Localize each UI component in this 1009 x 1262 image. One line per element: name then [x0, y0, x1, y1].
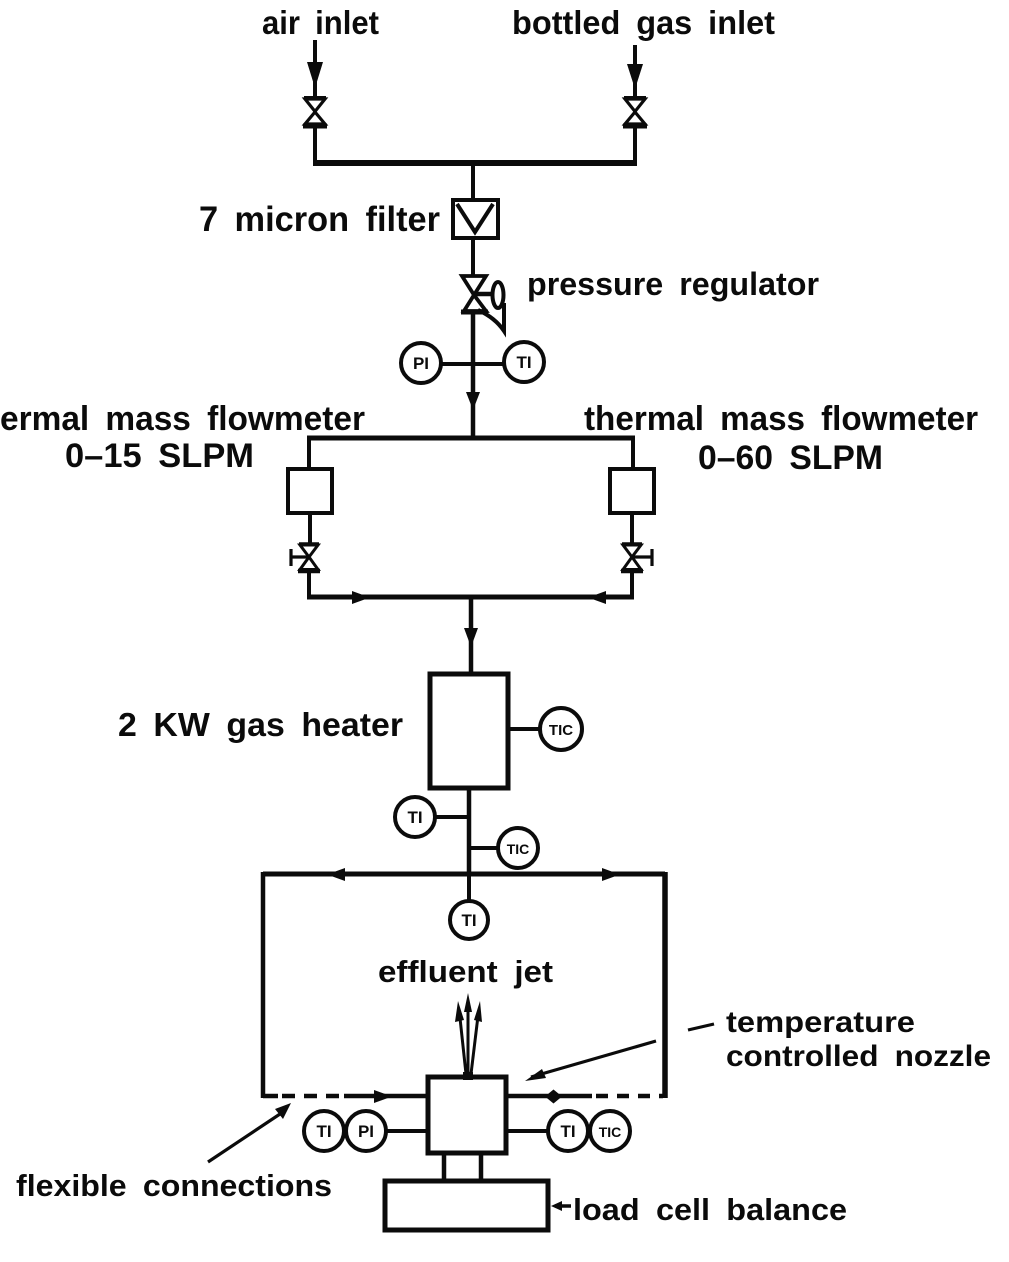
- svg-text:0–15 SLPM: 0–15 SLPM: [65, 437, 254, 475]
- svg-text:effluent jet: effluent jet: [378, 954, 553, 989]
- instrument TI4 (nozzle left): [304, 1111, 344, 1151]
- filter F1: [453, 200, 498, 238]
- wire: loop left side: [261, 872, 266, 1098]
- svg-text:TI: TI: [560, 1122, 575, 1141]
- valve V2 (bottled gas shutoff): [623, 98, 647, 126]
- label: bottled gas inlet: [512, 4, 775, 41]
- valve V3 (needle valve, left): [291, 544, 320, 571]
- label: controlled nozzle: [726, 1040, 991, 1073]
- svg-text:ermal mass flowmeter: ermal mass flowmeter: [0, 400, 365, 438]
- wire: loop bottom right (flexible connection): [506, 1090, 663, 1104]
- svg-text:TI: TI: [461, 911, 476, 930]
- jet arrows (effluent): [455, 993, 482, 1074]
- wire: enclosure loop top: [263, 868, 665, 881]
- svg-text:load cell balance: load cell balance: [573, 1192, 847, 1227]
- instrument TI3: [450, 901, 488, 939]
- svg-text:pressure regulator: pressure regulator: [527, 266, 819, 302]
- instrument TI5 (nozzle right): [506, 1111, 588, 1151]
- wire: gas inlet down pipe: [627, 45, 643, 97]
- wire: FM2 to valve V4: [630, 513, 634, 544]
- svg-text:TIC: TIC: [599, 1124, 622, 1140]
- wire: air inlet down pipe: [307, 40, 323, 97]
- svg-text:TI: TI: [407, 808, 422, 827]
- svg-text:2 KW gas heater: 2 KW gas heater: [118, 706, 403, 743]
- label: 2 KW gas heater: [118, 706, 403, 743]
- instrument TIC2: [469, 828, 538, 868]
- label: effluent jet: [378, 954, 553, 989]
- heater H1: [430, 674, 508, 788]
- wire: nozzle pedestal: [444, 1153, 481, 1182]
- jet arrow stems over nozzle throat: [463, 1072, 473, 1080]
- svg-text:7 micron filter: 7 micron filter: [199, 200, 440, 239]
- svg-text:controlled nozzle: controlled nozzle: [726, 1040, 991, 1073]
- label: pressure regulator: [527, 266, 819, 302]
- label: thermal mass flowmeter (left, clipped): [0, 400, 365, 438]
- svg-text:PI: PI: [413, 354, 429, 373]
- label: temperature: [726, 1006, 915, 1039]
- label: air inlet: [262, 4, 379, 41]
- nozzle N1 (temperature controlled): [428, 1077, 506, 1153]
- svg-text:bottled gas inlet: bottled gas inlet: [512, 4, 775, 41]
- svg-text:TIC: TIC: [549, 722, 573, 739]
- pressure regulator PR1: [461, 276, 504, 331]
- wire: inlet header: [313, 126, 637, 163]
- flowmeter FM1 (0-15 SLPM): [288, 469, 332, 513]
- wire: FM1 to valve V3: [308, 513, 312, 544]
- wire: heater outlet pipe: [467, 788, 472, 874]
- wire: regulator to flowmeter header: [466, 312, 480, 438]
- svg-text:TI: TI: [516, 353, 531, 372]
- label: 0-15 SLPM: [65, 437, 254, 475]
- valve V1 (air inlet shutoff): [303, 98, 327, 126]
- flowmeter FM2 (0-60 SLPM): [610, 469, 654, 513]
- wire: header to filter: [471, 163, 475, 201]
- svg-text:TIC: TIC: [507, 841, 530, 857]
- label: 0-60 SLPM: [698, 439, 883, 477]
- pointer: load cell arrow: [551, 1201, 571, 1211]
- valve V4 (needle valve, right): [621, 544, 652, 571]
- label: flexible connections: [16, 1168, 332, 1203]
- load cell LC1: [385, 1181, 548, 1230]
- svg-text:0–60 SLPM: 0–60 SLPM: [698, 439, 883, 477]
- svg-text:PI: PI: [358, 1122, 374, 1141]
- wire: flowmeter top manifold: [307, 438, 635, 470]
- wire: loop bottom left (flexible connection): [263, 1090, 428, 1103]
- svg-text:flexible connections: flexible connections: [16, 1168, 332, 1203]
- wire: flowmeter bottom manifold: [307, 591, 634, 604]
- svg-text:temperature: temperature: [726, 1006, 915, 1039]
- wire: manifold to heater: [464, 597, 478, 675]
- pointer: flexible connections arrow: [208, 1103, 291, 1162]
- wire: loop right side: [662, 872, 668, 1098]
- label: thermal mass flowmeter (right): [584, 400, 978, 438]
- wire: V4 to bottom manifold: [630, 571, 634, 597]
- instrument TIC1 (heater control): [508, 708, 582, 750]
- label: load cell balance: [573, 1192, 847, 1227]
- wire: loop top to TI3: [467, 874, 471, 901]
- svg-text:TI: TI: [316, 1122, 331, 1141]
- wire: filter to regulator: [471, 238, 475, 276]
- instrument TI1: [504, 342, 544, 382]
- svg-text:air inlet: air inlet: [262, 4, 379, 41]
- instrument TI2: [395, 797, 469, 837]
- pointer: temperature controlled nozzle: [525, 1024, 714, 1081]
- label: 7 micron filter: [199, 200, 440, 239]
- instrument PI1: [401, 343, 505, 383]
- instrument PI2 (nozzle left): [346, 1111, 428, 1151]
- svg-text:thermal mass flowmeter: thermal mass flowmeter: [584, 400, 978, 438]
- wire: V3 to bottom manifold: [307, 571, 311, 597]
- instrument TIC3 (nozzle right): [590, 1111, 630, 1151]
